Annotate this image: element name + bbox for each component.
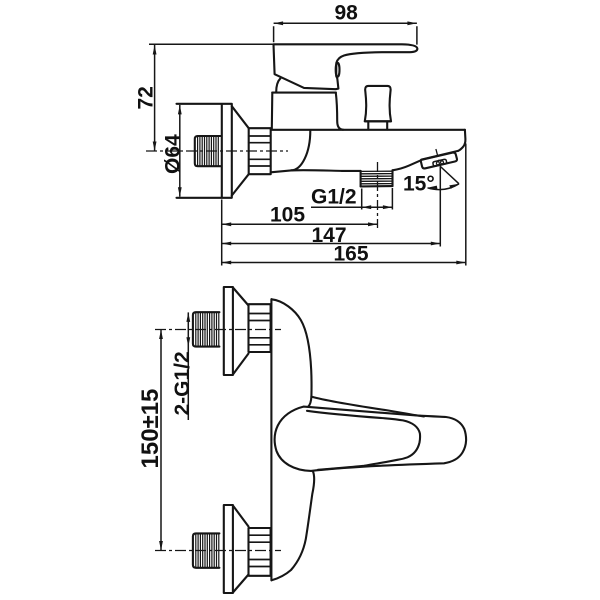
svg-text:165: 165 bbox=[334, 243, 369, 266]
svg-text:G1/2: G1/2 bbox=[311, 186, 357, 209]
svg-text:150±15: 150±15 bbox=[137, 389, 164, 469]
svg-text:72: 72 bbox=[135, 86, 158, 109]
svg-text:15°: 15° bbox=[403, 173, 435, 196]
svg-text:98: 98 bbox=[335, 2, 359, 25]
svg-text:105: 105 bbox=[270, 204, 305, 227]
svg-text:Ø64: Ø64 bbox=[161, 134, 184, 174]
svg-text:2-G1/2: 2-G1/2 bbox=[171, 351, 194, 415]
